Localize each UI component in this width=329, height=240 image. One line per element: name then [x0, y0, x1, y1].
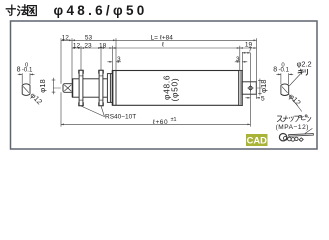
ext lines left — [60, 38, 62, 83]
svg-text:ℓ+60: ℓ+60 — [153, 119, 168, 126]
svg-text:18: 18 — [99, 42, 107, 49]
left shaft flatted end with cross — [63, 84, 73, 93]
svg-text:φ18: φ18 — [259, 80, 268, 93]
bearing ring — [107, 74, 112, 103]
hub band — [72, 79, 107, 97]
8 dim left detail — [21, 73, 23, 84]
svg-text:7: 7 — [248, 47, 252, 54]
phi18 bracket left — [53, 78, 55, 95]
dimensions — [18, 38, 302, 126]
svg-text:3: 3 — [117, 56, 121, 63]
svg-text:φ2.2: φ2.2 — [297, 60, 312, 69]
dim 3 left (outside arrows) — [107, 61, 112, 63]
svg-text:8: 8 — [273, 67, 277, 74]
katakana スナップピン — [277, 115, 311, 122]
ext lines right — [239, 46, 241, 71]
dim line B : 12/23/18 + l + 19 — [72, 47, 257, 49]
svg-text:L= ℓ+84: L= ℓ+84 — [151, 34, 174, 41]
title kanji 寸法図 — [6, 5, 36, 16]
snap pin icon — [279, 128, 313, 141]
leaders — [81, 106, 105, 117]
dim 3 right (outside arrows) — [235, 61, 240, 63]
svg-text:-0.1: -0.1 — [22, 67, 33, 74]
katakana キリ — [298, 69, 308, 75]
snap pin hole — [249, 86, 252, 89]
centerline — [53, 87, 262, 89]
svg-text:23: 23 — [84, 42, 92, 49]
svg-text:5: 5 — [261, 96, 265, 103]
right shaft stub — [242, 82, 256, 94]
left section detail — [22, 84, 30, 96]
right section detail — [281, 84, 289, 96]
svg-text:3: 3 — [236, 56, 240, 63]
svg-text:12: 12 — [62, 35, 70, 42]
8 dim right detail — [280, 73, 282, 84]
dim line A : L / 12 / 53 — [61, 39, 257, 41]
svg-text:±1: ±1 — [171, 117, 177, 123]
svg-text:(φ50): (φ50) — [170, 78, 180, 102]
svg-text:8: 8 — [17, 67, 21, 74]
bottom dim l+60 — [61, 123, 250, 125]
svg-text:53: 53 — [85, 35, 93, 42]
svg-text:(MPA−12): (MPA−12) — [276, 124, 309, 131]
svg-text:RS40−10T: RS40−10T — [105, 113, 136, 120]
svg-text:φ48.6/φ50: φ48.6/φ50 — [54, 3, 148, 18]
sprocket 2 — [99, 70, 104, 105]
phi18 bracket right — [259, 79, 261, 96]
svg-text:φ18: φ18 — [38, 79, 47, 92]
left cap line — [115, 71, 117, 106]
sprocket 1 — [79, 70, 84, 105]
svg-text:-0.1: -0.1 — [279, 67, 290, 74]
dim 5 (outside arrows) — [245, 97, 250, 99]
dim 7 — [242, 52, 250, 54]
roller body — [112, 71, 242, 106]
right cap line / end band — [239, 71, 243, 106]
svg-text:12: 12 — [73, 42, 81, 49]
svg-text:CAD: CAD — [247, 134, 268, 145]
CAD badge — [246, 134, 268, 146]
